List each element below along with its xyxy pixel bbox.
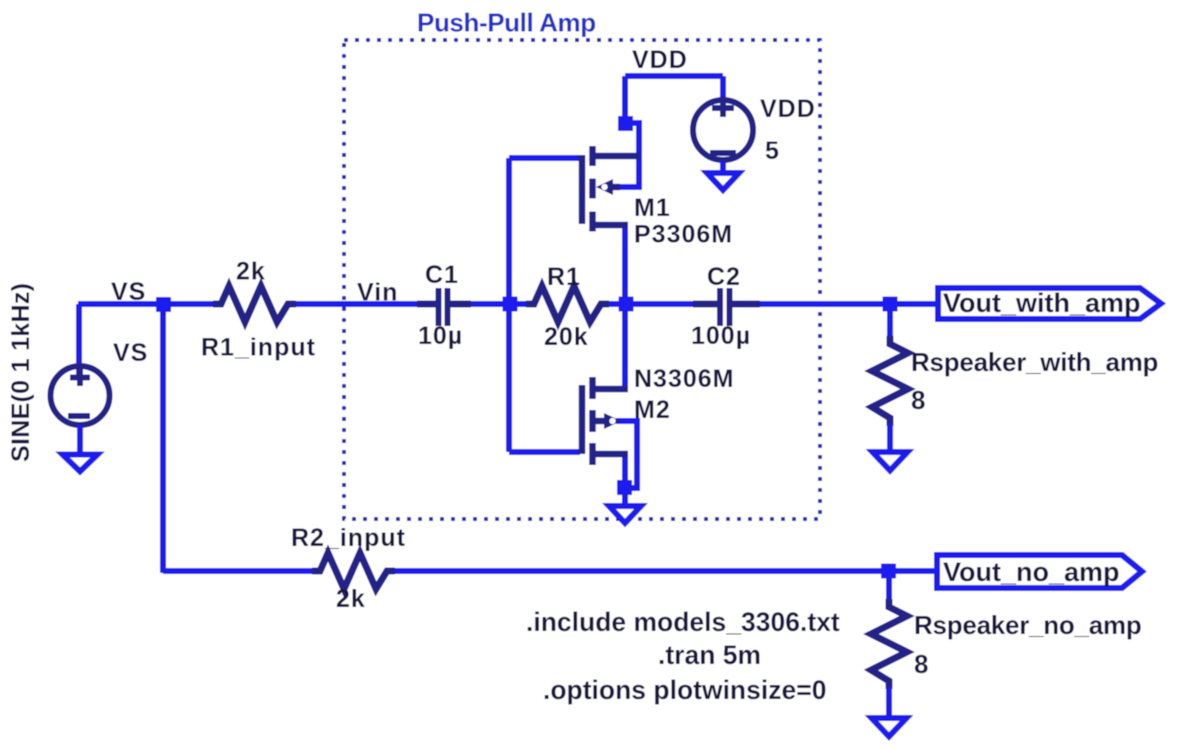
svg-text:M2: M2 bbox=[634, 396, 671, 424]
capacitor C1 bbox=[417, 288, 471, 326]
junction node Vout_with_amp bbox=[883, 297, 898, 312]
transistor M1 PMOS bbox=[582, 146, 640, 232]
wire bottom left to R2_input bbox=[163, 568, 314, 574]
wire node out to C2 bbox=[632, 301, 693, 307]
voltage source VS bbox=[51, 366, 110, 425]
wire Rspeaker_with_amp bottom lead bbox=[887, 424, 893, 450]
wire M1 gate horizontal bbox=[509, 155, 580, 161]
wire VDD rail left drop bbox=[622, 76, 628, 120]
svg-text:Vout_no_amp: Vout_no_amp bbox=[943, 557, 1120, 587]
resistor R1 bbox=[526, 286, 609, 322]
svg-text:.tran 5m: .tran 5m bbox=[658, 640, 761, 670]
junction node VS bbox=[156, 297, 171, 312]
wire VDD rail bbox=[625, 73, 723, 79]
resistor R1_input bbox=[213, 286, 296, 322]
wire junction to flag Vout_with_amp bbox=[890, 301, 938, 307]
svg-text:R1_input: R1_input bbox=[201, 334, 316, 362]
wire vertical VS down to bottom row bbox=[160, 304, 166, 573]
wire Rspeaker_no_amp bottom lead bbox=[886, 687, 892, 716]
svg-text:Push-Pull Amp: Push-Pull Amp bbox=[417, 8, 596, 38]
svg-text:VS: VS bbox=[113, 339, 148, 367]
svg-text:8: 8 bbox=[914, 649, 928, 679]
wire VDD source top lead bbox=[720, 76, 726, 110]
resistor R2_input bbox=[312, 553, 395, 589]
wire M2 source down bbox=[622, 455, 628, 490]
svg-text:R2_input: R2_input bbox=[291, 524, 406, 552]
ground below M2 bbox=[609, 506, 641, 523]
svg-text:N3306M: N3306M bbox=[634, 365, 735, 393]
junction node M2 source gnd bbox=[617, 480, 632, 495]
wire VS source lead bbox=[76, 304, 82, 380]
svg-text:Rspeaker_with_amp: Rspeaker_with_amp bbox=[911, 347, 1158, 377]
svg-text:Vin: Vin bbox=[357, 279, 398, 307]
svg-text:VDD: VDD bbox=[632, 46, 688, 74]
svg-text:P3306M: P3306M bbox=[634, 221, 733, 249]
junction node M1 source bbox=[618, 116, 633, 131]
transistor M1 bulk arrow bbox=[596, 179, 613, 195]
wire R2_input to bottom junction bbox=[393, 568, 890, 574]
wire M2 gate horizontal bbox=[509, 449, 580, 455]
svg-text:VDD: VDD bbox=[760, 95, 816, 123]
svg-text:10µ: 10µ bbox=[418, 322, 463, 350]
resistor Rspeaker_with_amp bbox=[887, 304, 893, 344]
wire R1_input to C1 bbox=[296, 301, 417, 307]
svg-text:5: 5 bbox=[765, 137, 780, 165]
svg-text:2k: 2k bbox=[336, 585, 366, 613]
wire M2 bulk step bbox=[616, 421, 637, 488]
svg-text:.options plotwinsize=0: .options plotwinsize=0 bbox=[543, 675, 826, 705]
resistor Rspeaker_no_amp bbox=[886, 571, 892, 607]
flag Vout_with_amp bbox=[938, 288, 1161, 319]
svg-text:R1: R1 bbox=[547, 263, 581, 291]
wire bottom junction to flag Vout_no_amp bbox=[890, 568, 937, 574]
svg-text:VS: VS bbox=[111, 278, 146, 306]
wire M1 bulk horizontal bbox=[615, 184, 642, 190]
wire R1 right lead to node out bbox=[607, 301, 632, 307]
wire M1 drain down to out node bbox=[622, 225, 628, 304]
ground below Rspeaker_with_amp bbox=[873, 452, 908, 471]
junction node out bbox=[619, 297, 634, 312]
wire main horizontal segment VS to R1_input bbox=[78, 301, 214, 307]
svg-text:SINE(0 1 1kHz): SINE(0 1 1kHz) bbox=[7, 283, 35, 462]
flag Vout_no_amp bbox=[937, 555, 1142, 588]
junction node Vout_no_amp bbox=[881, 564, 896, 579]
wire C2 to speaker junction bbox=[760, 301, 890, 307]
wire M2 drain up to out node bbox=[622, 304, 628, 389]
junction node Vin2 gate bbox=[503, 297, 518, 312]
ground below Rspeaker_no_amp bbox=[872, 718, 907, 737]
svg-text:8: 8 bbox=[911, 385, 925, 415]
wire M1 source step bbox=[625, 123, 639, 190]
svg-text:.include models_3306.txt: .include models_3306.txt bbox=[526, 607, 840, 637]
wire R1 left lead bbox=[516, 301, 528, 307]
transistor M2 bulk arrow bbox=[604, 413, 621, 429]
ground below VDD bbox=[707, 161, 739, 190]
wire gate vertical bbox=[506, 158, 512, 452]
capacitor C2 bbox=[693, 288, 760, 326]
svg-text:C2: C2 bbox=[707, 263, 741, 291]
ground below VS bbox=[63, 426, 98, 472]
svg-text:Rspeaker_no_amp: Rspeaker_no_amp bbox=[914, 610, 1141, 640]
svg-text:20k: 20k bbox=[544, 323, 589, 351]
voltage source VDD bbox=[693, 99, 753, 160]
svg-text:100µ: 100µ bbox=[691, 322, 751, 350]
svg-text:2k: 2k bbox=[236, 258, 266, 286]
transistor M2 NMOS bbox=[582, 377, 628, 465]
svg-text:C1: C1 bbox=[425, 261, 459, 289]
wire M2 ground stub bbox=[622, 494, 628, 506]
svg-text:M1: M1 bbox=[634, 194, 671, 222]
dotted box Push-Pull Amp bbox=[344, 40, 820, 519]
wire C1 to node Vin2 bbox=[471, 301, 516, 307]
svg-text:Vout_with_amp: Vout_with_amp bbox=[943, 288, 1141, 318]
